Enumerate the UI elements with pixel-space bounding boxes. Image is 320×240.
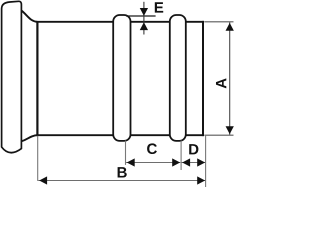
- pipe right end line: [202, 21, 204, 136]
- A arrow top (points up): [226, 23, 234, 31]
- D dimension line: [182, 162, 206, 164]
- B extension line (joint, below pipe): [37, 136, 39, 181]
- C dimension line: [126, 162, 180, 164]
- E arrow upper (points down): [140, 8, 148, 16]
- E extension line (rib top level): [126, 15, 156, 17]
- D arrow right (points right): [197, 158, 205, 166]
- pipe bottom line right segment: [186, 134, 205, 136]
- barb rib 2: [170, 15, 186, 141]
- label B: [118, 167, 127, 177]
- pipe bottom line left segment: [36, 134, 113, 136]
- label E: [155, 2, 163, 12]
- E dimension vertical line: [143, 2, 145, 35]
- A dimension line: [229, 22, 231, 134]
- flange bell body: [2, 1, 22, 152]
- C extension line (below rib 1): [125, 141, 127, 165]
- B arrow right (points right): [197, 176, 205, 184]
- barb rib 1: [113, 15, 130, 141]
- A extension line bottom: [204, 134, 233, 136]
- label A (rotated): [216, 78, 226, 88]
- label D: [189, 144, 198, 154]
- pipe top line right segment: [186, 21, 205, 23]
- D/B extension line (pipe end): [205, 136, 207, 187]
- pipe top line left segment: [36, 21, 113, 23]
- E arrow lower (points up): [140, 22, 148, 30]
- D arrow left (points left): [182, 158, 190, 166]
- B dimension line: [38, 180, 205, 182]
- A extension line top: [204, 21, 233, 23]
- B arrow left (points left): [39, 176, 47, 184]
- neck S-curve bottom: [22, 135, 38, 141]
- pipe top line middle segment: [131, 21, 171, 23]
- label C: [147, 143, 157, 154]
- C/D extension line (below rib 2): [180, 141, 182, 171]
- C arrow left (points left): [127, 158, 135, 166]
- neck S-curve top: [22, 11, 38, 22]
- joint line: [36, 21, 38, 136]
- A arrow bottom (points down): [226, 126, 234, 134]
- pipe bottom line middle segment: [131, 134, 171, 136]
- C arrow right (points right): [172, 158, 180, 166]
